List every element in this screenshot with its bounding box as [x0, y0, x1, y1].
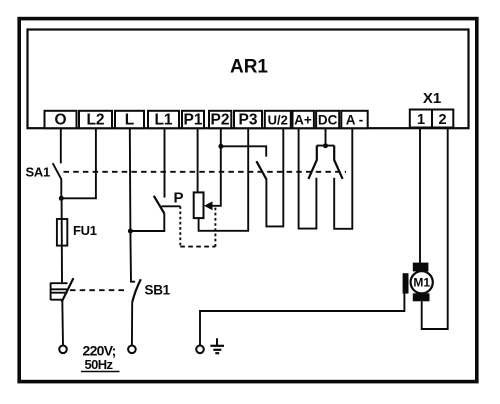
svg-text:L2: L2 [86, 112, 104, 129]
svg-text:X1: X1 [423, 90, 441, 107]
svg-text:A+: A+ [294, 113, 312, 128]
svg-text:A -: A - [346, 113, 364, 128]
svg-text:U/2: U/2 [268, 113, 288, 128]
svg-text:1: 1 [417, 112, 425, 128]
svg-text:L: L [125, 112, 134, 129]
svg-text:SB1: SB1 [145, 283, 171, 298]
svg-text:P3: P3 [239, 112, 258, 129]
svg-text:2: 2 [438, 112, 446, 128]
svg-text:L1: L1 [154, 112, 172, 129]
svg-text:SA1: SA1 [26, 165, 50, 180]
svg-text:O: O [54, 112, 66, 129]
svg-text:FU1: FU1 [73, 223, 97, 238]
svg-text:DC: DC [318, 113, 338, 128]
svg-text:P1: P1 [184, 112, 203, 129]
svg-text:M1: M1 [413, 276, 430, 290]
svg-text:AR1: AR1 [230, 57, 268, 78]
svg-text:P: P [174, 190, 184, 207]
svg-text:50Hz: 50Hz [85, 357, 114, 372]
svg-text:P2: P2 [211, 112, 230, 129]
